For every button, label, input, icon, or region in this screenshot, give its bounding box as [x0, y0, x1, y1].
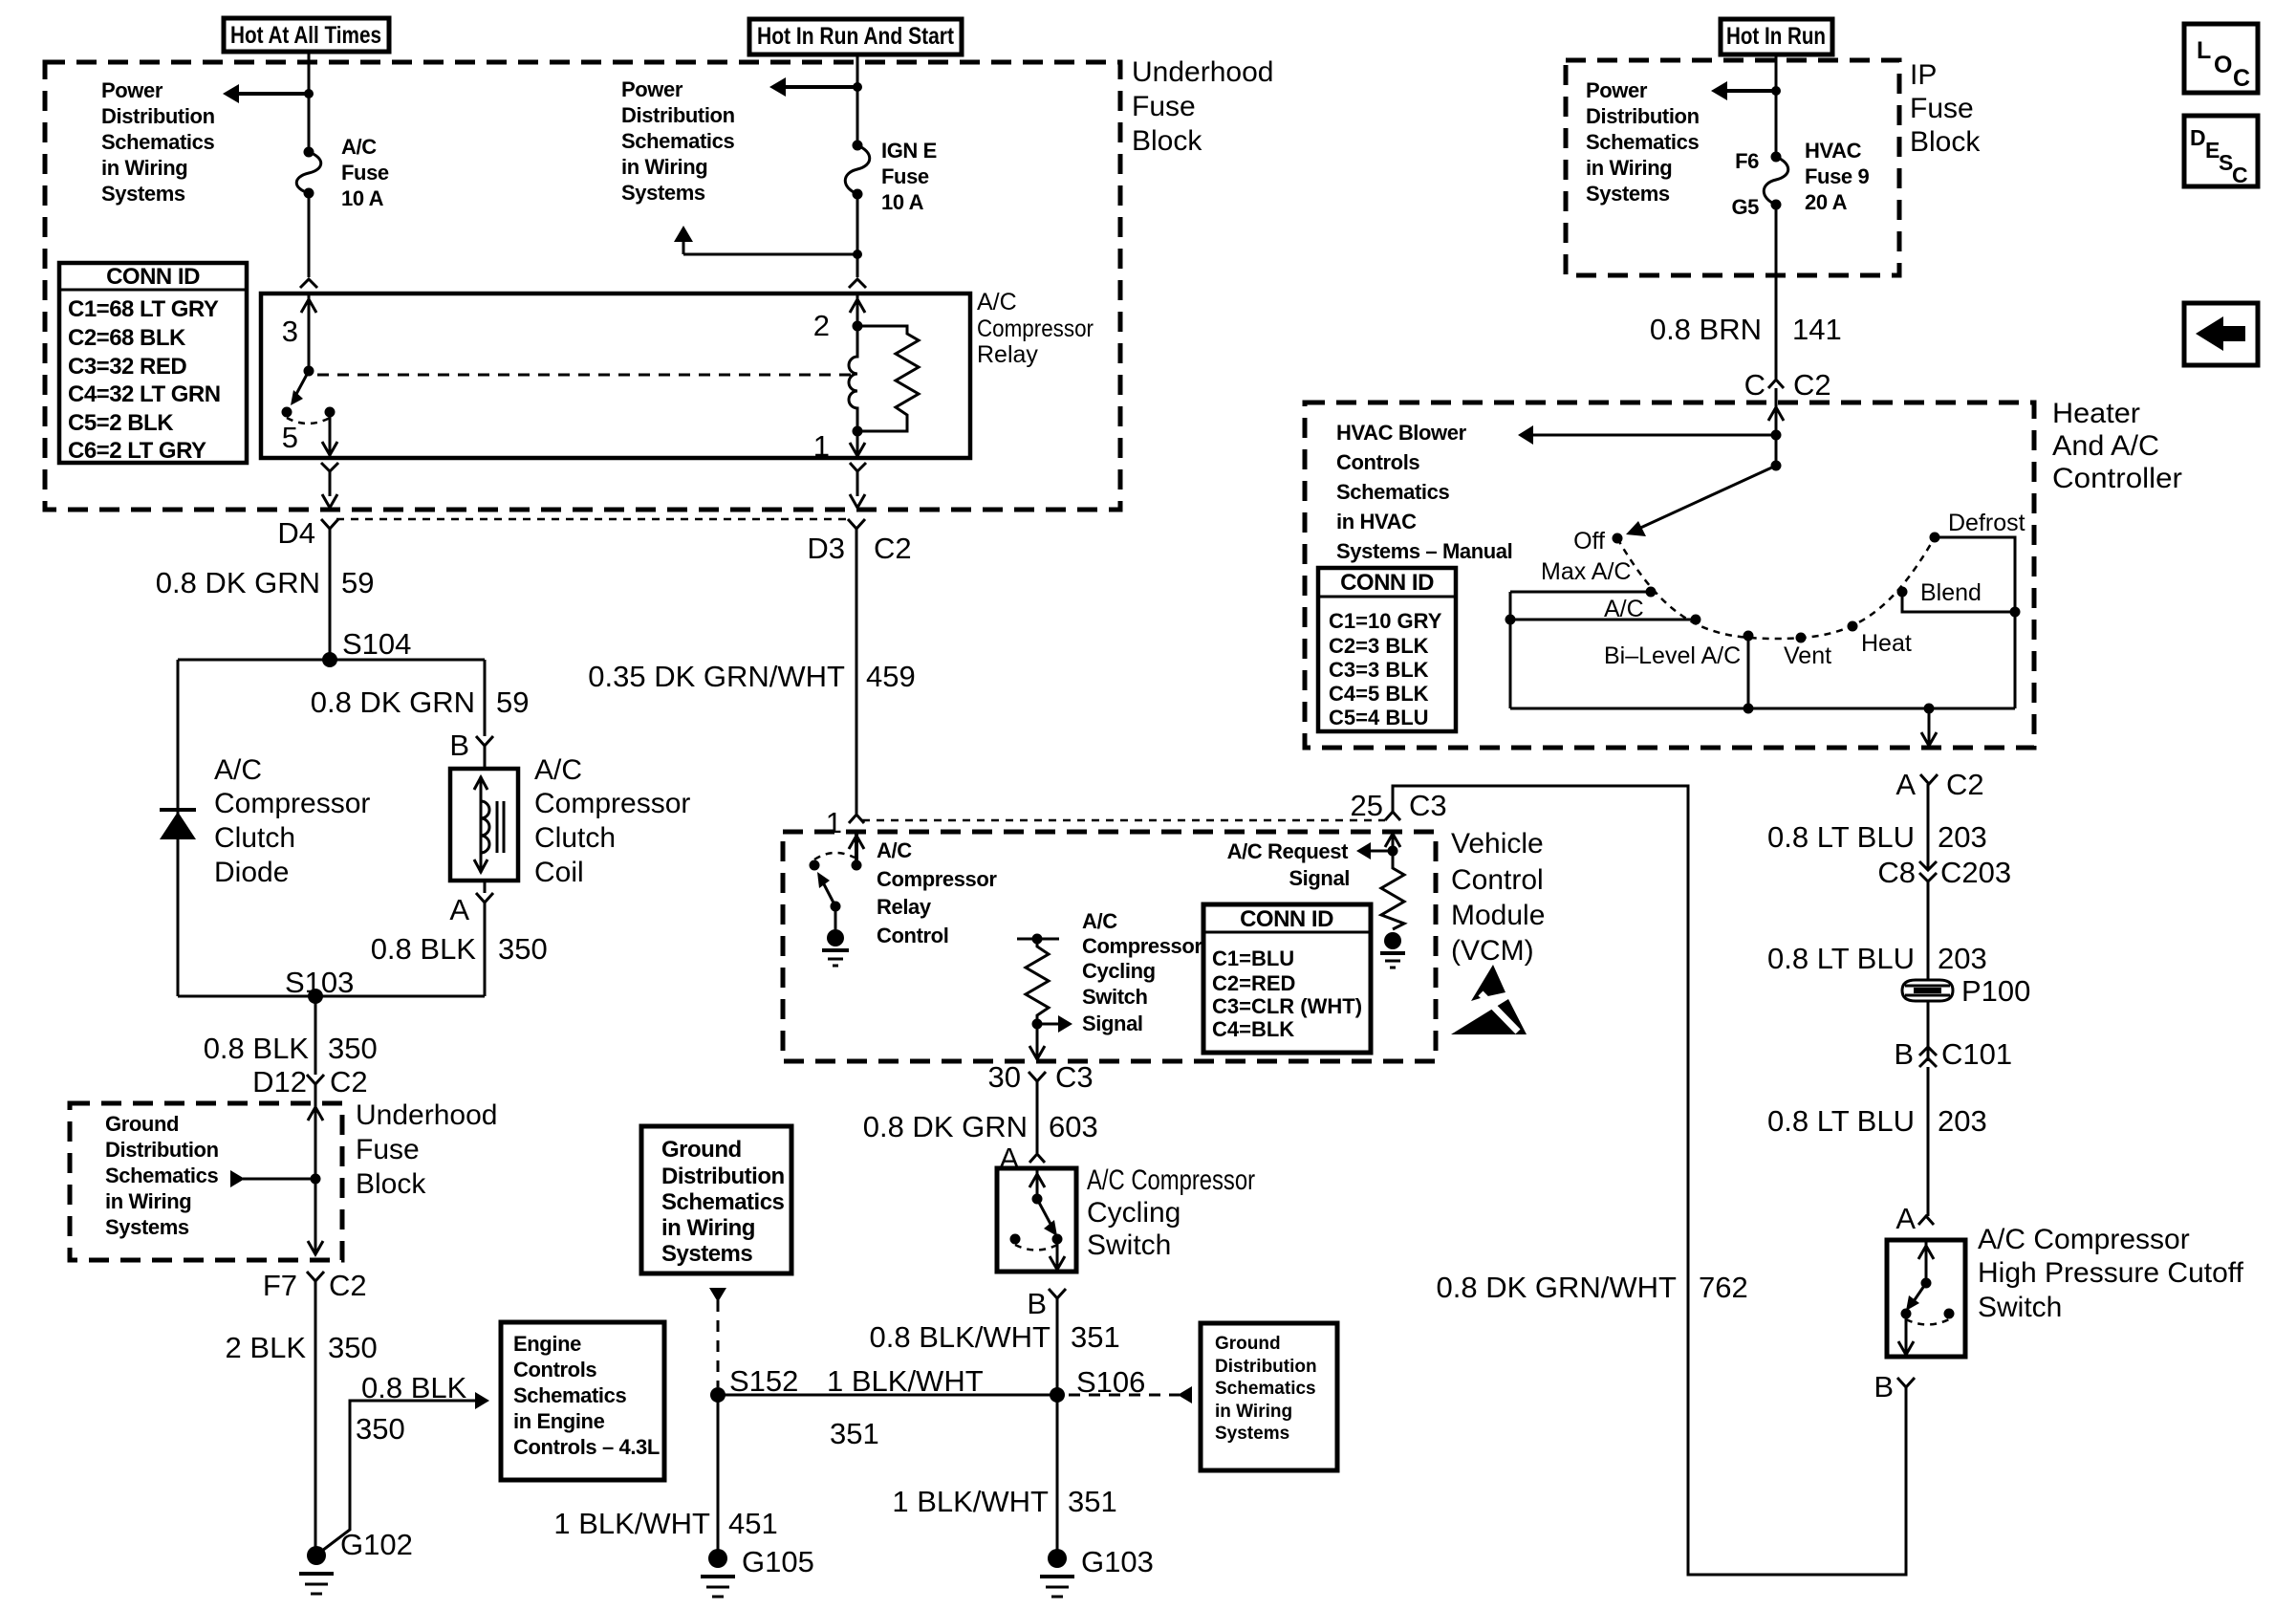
- svg-text:Schematics: Schematics: [621, 129, 734, 153]
- relay NC contact dot: [282, 407, 292, 418]
- connector A (HP cutoff): [1895, 1202, 1934, 1235]
- relay coil top node: [853, 321, 863, 332]
- node power-dist branch junction: [304, 89, 314, 98]
- dashed ref S106 to ground box: [1069, 1394, 1180, 1397]
- connector C8 C203: [1877, 856, 2011, 889]
- text Power Distribution Schematics in Wiring Systems (left): [101, 78, 215, 206]
- svg-text:Signal: Signal: [1289, 866, 1350, 890]
- svg-text:Block: Block: [1910, 126, 1981, 158]
- svg-text:Schematics: Schematics: [1336, 480, 1449, 504]
- svg-text:0.8 BLK: 0.8 BLK: [371, 932, 477, 966]
- svg-text:C: C: [2232, 163, 2248, 187]
- node ign power-dist branch: [853, 82, 862, 92]
- svg-text:Controls: Controls: [1336, 450, 1419, 474]
- relay control right contact dot: [852, 860, 862, 871]
- svg-text:Fuse: Fuse: [1910, 93, 1974, 124]
- wire S103 down to D12: [314, 996, 317, 1075]
- svg-text:S152: S152: [729, 1364, 798, 1398]
- label A/C Compressor Relay: [977, 289, 1094, 368]
- svg-text:in Wiring: in Wiring: [1215, 1402, 1292, 1422]
- fuse HVAC fuse 9 20A: [1764, 152, 1788, 210]
- svg-text:B: B: [1027, 1287, 1047, 1320]
- label A/C Compressor Cycling Switch: [1087, 1164, 1255, 1261]
- svg-text:762: 762: [1699, 1271, 1748, 1304]
- svg-text:0.8 BRN: 0.8 BRN: [1650, 313, 1762, 346]
- svg-text:Cycling: Cycling: [1087, 1197, 1180, 1229]
- connector B C101: [1894, 1037, 2012, 1071]
- svg-text:Compressor: Compressor: [877, 867, 997, 891]
- svg-text:C3: C3: [1409, 789, 1447, 822]
- CONN ID table (VCM): [1203, 904, 1371, 1053]
- svg-text:3: 3: [282, 315, 298, 348]
- label A/C Compressor High Pressure Cutoff Switch: [1978, 1224, 2244, 1323]
- svg-text:Underhood: Underhood: [1132, 56, 1273, 88]
- svg-text:A/C: A/C: [977, 289, 1017, 315]
- cycling switch signal node: [1032, 1019, 1043, 1030]
- svg-text:Ground: Ground: [105, 1112, 179, 1136]
- ground ref arrow and node: [230, 1170, 321, 1187]
- cycling switch common dot: [1032, 1194, 1043, 1205]
- ground distribution reference box (middle): [641, 1126, 791, 1273]
- svg-text:0.8 DK GRN/WHT: 0.8 DK GRN/WHT: [1437, 1271, 1678, 1304]
- wire B to G103: [1056, 1298, 1059, 1558]
- fuse A/C 10A: [296, 147, 321, 199]
- label HVAC Fuse 9 20 A: [1805, 139, 1869, 214]
- ground distribution dashed box (underhood): [70, 1103, 342, 1260]
- rotary wiper arrow to Off: [1626, 466, 1776, 536]
- svg-text:59: 59: [341, 566, 374, 599]
- svg-text:Block: Block: [1132, 125, 1202, 157]
- svg-text:Fuse 9: Fuse 9: [1805, 164, 1869, 188]
- svg-text:350: 350: [498, 932, 548, 966]
- text Power Distribution Schematics in Wiring Systems (middle): [621, 77, 735, 205]
- wire A C2 to C8: [1927, 784, 1930, 868]
- relay switch arm: [291, 371, 309, 405]
- svg-text:59: 59: [496, 685, 529, 719]
- node ip power-dist branch: [1771, 86, 1781, 96]
- node rotary feed: [1771, 461, 1782, 471]
- svg-text:(VCM): (VCM): [1451, 935, 1534, 967]
- svg-text:C5=4 BLU: C5=4 BLU: [1329, 706, 1429, 729]
- cycling switch signal arrow: [1037, 1015, 1072, 1033]
- svg-text:A/C: A/C: [214, 754, 262, 786]
- svg-text:L: L: [2197, 37, 2211, 64]
- text HVAC Blower Controls Schematics in HVAC Systems - Manual: [1336, 421, 1512, 563]
- wire bottom of diode loop: [178, 995, 485, 998]
- svg-text:Ground: Ground: [661, 1137, 742, 1163]
- wire label 0.8 LT BLU 203 (3): [1767, 1104, 1987, 1138]
- connector B (HP cutoff): [1874, 1370, 1915, 1403]
- wire label 0.8 BLK 350: [371, 932, 548, 966]
- svg-text:351: 351: [1068, 1485, 1117, 1518]
- wire D4 to S104: [329, 529, 332, 660]
- rotary position Blend: [1897, 579, 1982, 606]
- svg-text:Schematics: Schematics: [101, 130, 214, 154]
- svg-text:0.8 LT BLU: 0.8 LT BLU: [1767, 1104, 1915, 1138]
- connector D4: [277, 516, 338, 550]
- node blend junction: [2010, 607, 2021, 618]
- svg-text:203: 203: [1938, 1104, 1987, 1138]
- svg-text:1 BLK/WHT: 1 BLK/WHT: [892, 1485, 1049, 1518]
- wire C to heater box: [1775, 388, 1778, 435]
- A/C compressor relay box: [261, 294, 970, 458]
- branch wire to engine controls ref: [318, 1401, 478, 1554]
- svg-text:Vehicle: Vehicle: [1451, 828, 1544, 859]
- svg-text:G102: G102: [340, 1528, 413, 1561]
- HP cutoff switch arm: [1906, 1283, 1926, 1311]
- svg-text:Ground: Ground: [1215, 1334, 1281, 1354]
- svg-text:C1=10 GRY: C1=10 GRY: [1329, 609, 1442, 633]
- svg-text:C2: C2: [874, 532, 912, 565]
- connector C C2: [1744, 368, 1831, 402]
- svg-text:Max A/C: Max A/C: [1541, 558, 1631, 585]
- svg-text:Coil: Coil: [534, 857, 584, 888]
- label box Hot In Run: [1721, 19, 1832, 54]
- svg-text:C4=5 BLK: C4=5 BLK: [1329, 682, 1429, 706]
- svg-text:459: 459: [866, 660, 916, 693]
- wire 30 to cycling switch: [1036, 1081, 1039, 1153]
- text A/C Compressor Relay Control: [877, 838, 997, 947]
- connector B (cycling switch): [1027, 1287, 1066, 1320]
- svg-text:C203: C203: [1940, 856, 2011, 889]
- wire label 1 BLK/WHT 451: [553, 1507, 777, 1540]
- connector A (clutch coil): [449, 881, 493, 996]
- label A/C Compressor Clutch Coil: [534, 754, 690, 888]
- svg-text:A/C: A/C: [1082, 909, 1117, 933]
- svg-text:0.8 BLK: 0.8 BLK: [361, 1371, 467, 1404]
- A/C request signal node: [1388, 846, 1398, 857]
- connector A (cycling switch): [999, 1142, 1045, 1175]
- svg-text:in HVAC: in HVAC: [1336, 510, 1417, 533]
- svg-text:in Wiring: in Wiring: [101, 156, 187, 180]
- text Power Distribution Schematics in Wiring Systems (ip): [1586, 78, 1700, 206]
- splice S104: [322, 627, 411, 667]
- wire label 1 BLK/WHT / 351: [827, 1364, 984, 1450]
- diode branch wire: [177, 660, 180, 996]
- wire B C101 to A: [1927, 1067, 1930, 1216]
- svg-text:IP: IP: [1910, 59, 1937, 91]
- svg-text:Block: Block: [356, 1168, 426, 1200]
- svg-text:0.8 DK GRN: 0.8 DK GRN: [863, 1110, 1028, 1143]
- connector chevron above relay pin 2: [849, 279, 866, 288]
- svg-text:0.8 DK GRN: 0.8 DK GRN: [156, 566, 320, 599]
- wire fuse to relay pin 3: [308, 193, 311, 277]
- arrow to power distribution reference (middle): [769, 77, 857, 97]
- svg-text:Cycling: Cycling: [1082, 959, 1156, 983]
- splice S103: [285, 966, 354, 1004]
- svg-text:Control: Control: [1451, 864, 1544, 896]
- connector D12 C2: [252, 1065, 368, 1103]
- svg-text:And A/C: And A/C: [2052, 430, 2159, 462]
- wire label 0.35 DK GRN/WHT 459: [588, 660, 915, 693]
- svg-text:C3=CLR (WHT): C3=CLR (WHT): [1212, 994, 1362, 1018]
- svg-text:Heat: Heat: [1861, 630, 1912, 657]
- wire label 0.8 DK GRN/WHT 762: [1437, 1271, 1748, 1304]
- svg-text:C: C: [2233, 65, 2250, 92]
- label box Hot At All Times: [224, 18, 389, 52]
- thin dashed connector line D4-D3: [336, 518, 850, 521]
- relay pin 1 exit arrow: [850, 431, 865, 458]
- underhood fuse block dashed box: [45, 62, 1120, 510]
- svg-text:Signal: Signal: [1082, 1012, 1143, 1035]
- svg-text:Bi–Level A/C: Bi–Level A/C: [1604, 642, 1741, 669]
- wire P100 to B C101: [1927, 1001, 1930, 1061]
- label Underhood Fuse Block: [1132, 56, 1273, 157]
- wire label 0.8 LT BLU 203 (1): [1767, 820, 1987, 854]
- LOC box: [2184, 24, 2258, 93]
- relay control ground: [822, 906, 849, 966]
- svg-text:203: 203: [1938, 820, 1987, 854]
- svg-text:CONN ID: CONN ID: [1240, 906, 1333, 932]
- svg-text:in Engine: in Engine: [513, 1409, 605, 1433]
- VCM exit arrow pin 30: [1029, 1024, 1045, 1059]
- svg-text:A: A: [1895, 768, 1916, 801]
- svg-text:B: B: [1874, 1370, 1894, 1403]
- svg-text:F7: F7: [263, 1269, 297, 1302]
- svg-text:Compressor: Compressor: [214, 788, 370, 819]
- relay contact dashed arc: [287, 418, 330, 424]
- svg-text:C2: C2: [329, 1269, 367, 1302]
- svg-text:Distribution: Distribution: [1586, 104, 1700, 128]
- svg-text:C3=32 RED: C3=32 RED: [68, 354, 186, 380]
- heater exit arrow: [1921, 708, 1937, 746]
- back arrow box: [2184, 303, 2258, 365]
- svg-text:C1=68 LT GRY: C1=68 LT GRY: [68, 296, 219, 322]
- label Heater And A/C Controller: [2052, 398, 2182, 494]
- svg-text:A/C Compressor: A/C Compressor: [1087, 1164, 1255, 1196]
- arrow to HVAC blower ref: [1518, 425, 1776, 445]
- svg-text:1: 1: [826, 806, 842, 839]
- ground ref arrow down to S152: [709, 1288, 726, 1387]
- svg-text:Compressor: Compressor: [534, 788, 690, 819]
- svg-text:Fuse: Fuse: [1132, 91, 1196, 122]
- svg-text:351: 351: [830, 1417, 879, 1450]
- svg-text:D3: D3: [807, 532, 845, 565]
- arrow to power distribution reference (ip): [1711, 81, 1776, 100]
- svg-text:Hot At All Times: Hot At All Times: [230, 22, 381, 49]
- svg-text:D4: D4: [277, 516, 315, 550]
- label Underhood Fuse Block (second): [356, 1099, 497, 1200]
- connector B (clutch coil): [449, 729, 493, 769]
- text Ground Distribution Schematics in Wiring Systems (dashed box): [105, 1112, 219, 1239]
- svg-text:Schematics: Schematics: [1215, 1379, 1316, 1399]
- svg-text:Blend: Blend: [1920, 579, 1982, 606]
- svg-text:Switch: Switch: [1082, 985, 1148, 1009]
- svg-text:P100: P100: [1961, 974, 2030, 1008]
- wire S104 to clutch coil B: [484, 660, 487, 736]
- connector pin 25 C3: [1351, 789, 1447, 822]
- rotary position Max A/C: [1541, 558, 1657, 598]
- svg-text:Relay: Relay: [877, 895, 932, 919]
- IP fuse block dashed box: [1566, 60, 1899, 275]
- svg-text:C4=BLK: C4=BLK: [1212, 1017, 1294, 1041]
- rotary position Vent: [1784, 633, 1831, 670]
- svg-text:G103: G103: [1081, 1545, 1154, 1578]
- svg-text:Defrost: Defrost: [1948, 510, 2025, 536]
- relay coil: [849, 326, 857, 431]
- wire Hot In Run And Start to fuse: [856, 54, 859, 145]
- rotary position A/C: [1604, 596, 1701, 625]
- svg-text:Fuse: Fuse: [356, 1134, 420, 1165]
- wire S152 to G105: [717, 1395, 720, 1558]
- svg-text:A: A: [1895, 1202, 1916, 1235]
- HP cutoff common dot: [1921, 1278, 1932, 1289]
- svg-text:0.35 DK GRN/WHT: 0.35 DK GRN/WHT: [588, 660, 845, 693]
- svg-text:F6: F6: [1735, 149, 1759, 173]
- svg-text:Switch: Switch: [1087, 1229, 1171, 1261]
- rotary position Heat: [1848, 621, 1912, 658]
- VCM relay control entry arrow: [849, 832, 864, 865]
- ground G103: [1040, 1545, 1154, 1597]
- svg-text:D12: D12: [252, 1065, 307, 1099]
- svg-text:10 A: 10 A: [341, 186, 384, 210]
- VCM dashed box: [783, 832, 1436, 1061]
- svg-text:2 BLK: 2 BLK: [226, 1331, 307, 1364]
- connector chevron below relay pin 5: [321, 463, 338, 508]
- fuse IGN E 10A: [845, 141, 870, 200]
- label A/C Compressor Clutch Diode: [214, 754, 370, 888]
- svg-text:Vent: Vent: [1784, 642, 1831, 669]
- A/C compressor clutch diode: [160, 810, 196, 839]
- svg-text:350: 350: [328, 1032, 378, 1065]
- heater and A/C controller dashed box: [1305, 402, 2034, 748]
- svg-text:Distribution: Distribution: [1215, 1357, 1317, 1377]
- wire F7 to G102: [314, 1281, 317, 1556]
- relay pin 5 exit arrow: [322, 412, 337, 457]
- relay common contact node: [304, 366, 314, 377]
- svg-text:Distribution: Distribution: [105, 1138, 219, 1162]
- HP cutoff exit arrow: [1898, 1314, 1914, 1357]
- svg-text:G5: G5: [1731, 195, 1759, 219]
- svg-text:1: 1: [813, 429, 830, 463]
- node blower branch: [1771, 430, 1782, 441]
- wire label 0.8 BLK / 350: [356, 1371, 467, 1446]
- svg-text:C2: C2: [1946, 768, 1984, 801]
- svg-text:S103: S103: [285, 966, 354, 999]
- wire label 2 BLK 350: [226, 1331, 378, 1364]
- svg-text:Control: Control: [877, 924, 948, 947]
- relay control switch arm: [817, 872, 841, 912]
- rotary position Off: [1573, 528, 1622, 555]
- wire from Hot At All Times to fuse: [308, 52, 311, 152]
- cycling switch signal resistor: [1026, 939, 1049, 1024]
- svg-text:Clutch: Clutch: [214, 822, 295, 854]
- svg-text:0.8 BLK/WHT: 0.8 BLK/WHT: [870, 1320, 1051, 1354]
- cycling switch arm: [1037, 1199, 1057, 1236]
- svg-text:A/C: A/C: [341, 135, 377, 159]
- svg-text:C5=2 BLK: C5=2 BLK: [68, 410, 174, 436]
- svg-text:Power: Power: [621, 77, 683, 101]
- svg-text:in Wiring: in Wiring: [105, 1189, 191, 1213]
- label IGN E Fuse 10 A: [881, 139, 937, 214]
- HP cutoff contacts: [1901, 1309, 1955, 1325]
- wire max A/C bracket: [1510, 591, 1651, 594]
- svg-text:B: B: [449, 729, 469, 762]
- svg-text:350: 350: [328, 1331, 378, 1364]
- node lower branch junction: [853, 250, 862, 259]
- A/C request pull resistor: [1381, 851, 1404, 929]
- svg-text:A/C: A/C: [877, 838, 912, 862]
- svg-text:C1=BLU: C1=BLU: [1212, 946, 1294, 970]
- wire blend bracket: [1902, 592, 2015, 612]
- svg-text:Schematics: Schematics: [1586, 130, 1699, 154]
- svg-text:Systems: Systems: [101, 182, 185, 206]
- svg-text:2: 2: [813, 309, 830, 342]
- svg-text:10 A: 10 A: [881, 190, 924, 214]
- svg-text:Clutch: Clutch: [534, 822, 616, 854]
- svg-text:350: 350: [356, 1412, 405, 1446]
- svg-text:B: B: [1894, 1037, 1914, 1071]
- svg-text:Heater: Heater: [2052, 398, 2140, 429]
- wire bi-level vertical: [1747, 636, 1750, 708]
- relay pin 2 entry arrow: [850, 294, 865, 326]
- relay parallel resistor: [857, 326, 919, 431]
- entry arrow into ground dist box: [308, 1103, 323, 1179]
- svg-text:Distribution: Distribution: [621, 103, 735, 127]
- cycling switch exit arrow: [1050, 1239, 1065, 1272]
- rotary dashed arc: [1617, 537, 1935, 639]
- svg-text:Systems – Manual: Systems – Manual: [1336, 539, 1512, 563]
- svg-text:S104: S104: [342, 627, 411, 661]
- ground distribution reference box (right): [1201, 1323, 1337, 1470]
- svg-text:203: 203: [1938, 942, 1987, 975]
- svg-text:351: 351: [1071, 1320, 1120, 1354]
- svg-text:C2=3 BLK: C2=3 BLK: [1329, 634, 1429, 658]
- A/C request signal arrow: [1356, 842, 1393, 859]
- HP cutoff entry arrow: [1918, 1240, 1934, 1283]
- svg-text:CONN ID: CONN ID: [1340, 570, 1434, 596]
- wire S152-S106: [718, 1394, 1057, 1397]
- ground ref arrowhead (right): [1178, 1386, 1192, 1403]
- relay NO contact dot: [325, 407, 336, 418]
- svg-text:C2=RED: C2=RED: [1212, 971, 1295, 995]
- svg-text:Power: Power: [101, 78, 163, 102]
- label A/C Fuse 10 A: [341, 135, 389, 210]
- wire Hot In Run to fuse: [1775, 54, 1778, 157]
- relay control dashed arc: [814, 853, 855, 859]
- svg-text:Controller: Controller: [2052, 463, 2182, 494]
- wire rotary bottom bus: [1510, 707, 2015, 710]
- svg-text:Distribution: Distribution: [661, 1164, 785, 1189]
- wire label 0.8 DK GRN 603: [863, 1110, 1098, 1143]
- connector chevron below relay pin 1: [850, 463, 866, 508]
- svg-text:C3: C3: [1055, 1060, 1094, 1094]
- splice S152: [710, 1364, 798, 1403]
- clutch coil symbol: [474, 776, 504, 873]
- wire defrost bracket: [1935, 537, 2015, 708]
- cycling switch contacts: [1010, 1234, 1063, 1251]
- svg-text:Module: Module: [1451, 900, 1545, 931]
- svg-text:141: 141: [1792, 313, 1842, 346]
- svg-text:C2: C2: [1793, 368, 1831, 402]
- wire label 0.8 DK GRN 59 (second): [311, 685, 530, 719]
- ESD symbol: [1451, 965, 1527, 1034]
- thin dashed connector line pin1-pin25: [862, 819, 1385, 822]
- wire fuse to relay pin 2: [856, 194, 859, 277]
- svg-text:CONN ID: CONN ID: [106, 264, 200, 290]
- rotary position Defrost: [1930, 510, 2025, 543]
- svg-text:Schematics: Schematics: [661, 1189, 785, 1215]
- svg-text:Relay: Relay: [977, 341, 1038, 368]
- connector D3 C2: [807, 519, 911, 565]
- svg-text:Compressor: Compressor: [977, 315, 1094, 342]
- heater entry arrow: [1768, 407, 1784, 421]
- A/C request ground: [1380, 932, 1405, 968]
- cycling switch signal stub: [1017, 934, 1059, 945]
- label box Hot In Run And Start: [749, 19, 962, 54]
- A/C compressor clutch coil box: [450, 769, 518, 881]
- splice S106: [1050, 1365, 1145, 1403]
